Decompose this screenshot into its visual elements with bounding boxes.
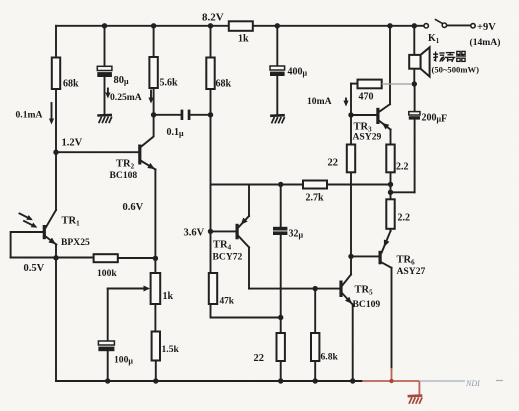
svg-text:ASY27: ASY27	[397, 266, 426, 277]
svg-text:0.25mA: 0.25mA	[110, 92, 142, 103]
svg-text:47k: 47k	[220, 297, 235, 307]
svg-text:1.2V: 1.2V	[62, 138, 83, 149]
svg-text:1k: 1k	[238, 34, 249, 45]
svg-text:400μ: 400μ	[288, 67, 308, 78]
svg-text:1.5k: 1.5k	[162, 344, 180, 355]
svg-text:TR1: TR1	[62, 216, 81, 228]
svg-text:8.2V: 8.2V	[202, 12, 224, 24]
svg-text:22: 22	[254, 353, 265, 364]
svg-text:68k: 68k	[216, 79, 232, 90]
svg-text:3.6V: 3.6V	[184, 228, 205, 239]
svg-text:200μF: 200μF	[422, 113, 448, 125]
svg-text:22: 22	[328, 158, 339, 169]
svg-text:6.8k: 6.8k	[321, 352, 339, 363]
svg-text:BC108: BC108	[110, 170, 138, 181]
svg-text:0.5V: 0.5V	[24, 263, 45, 274]
svg-text:BPX25: BPX25	[61, 237, 90, 248]
svg-text:2.7k: 2.7k	[306, 193, 325, 204]
svg-text:K1: K1	[428, 33, 440, 45]
svg-text:10mA: 10mA	[307, 96, 332, 107]
svg-text:TR6: TR6	[397, 255, 416, 267]
svg-text:100k: 100k	[97, 268, 117, 279]
svg-text:2.2: 2.2	[398, 213, 411, 224]
svg-text:2.2: 2.2	[396, 162, 409, 173]
svg-text:NDI: NDI	[465, 379, 480, 388]
svg-text:0.1mA: 0.1mA	[16, 110, 43, 121]
svg-text:ASY29: ASY29	[353, 132, 382, 143]
svg-text:68k: 68k	[63, 79, 79, 90]
svg-text:+9V: +9V	[477, 22, 496, 33]
svg-text:(14mA): (14mA)	[470, 37, 501, 48]
svg-text:TR5: TR5	[355, 285, 374, 297]
svg-text:1k: 1k	[163, 291, 174, 302]
svg-text:0.6V: 0.6V	[123, 202, 144, 213]
svg-text:32μ: 32μ	[289, 229, 304, 240]
svg-text:TR2: TR2	[116, 159, 135, 171]
svg-text:100μ: 100μ	[114, 355, 133, 366]
svg-text:(50~500mW): (50~500mW)	[432, 65, 480, 75]
svg-text:TR4: TR4	[213, 240, 232, 252]
svg-text:BC109: BC109	[353, 299, 381, 310]
svg-text:BCY72: BCY72	[213, 252, 243, 263]
svg-text:5.6k: 5.6k	[160, 78, 179, 89]
svg-text:80μ: 80μ	[114, 75, 130, 86]
svg-text:470: 470	[359, 92, 374, 103]
svg-text:0.1μ: 0.1μ	[167, 127, 185, 138]
